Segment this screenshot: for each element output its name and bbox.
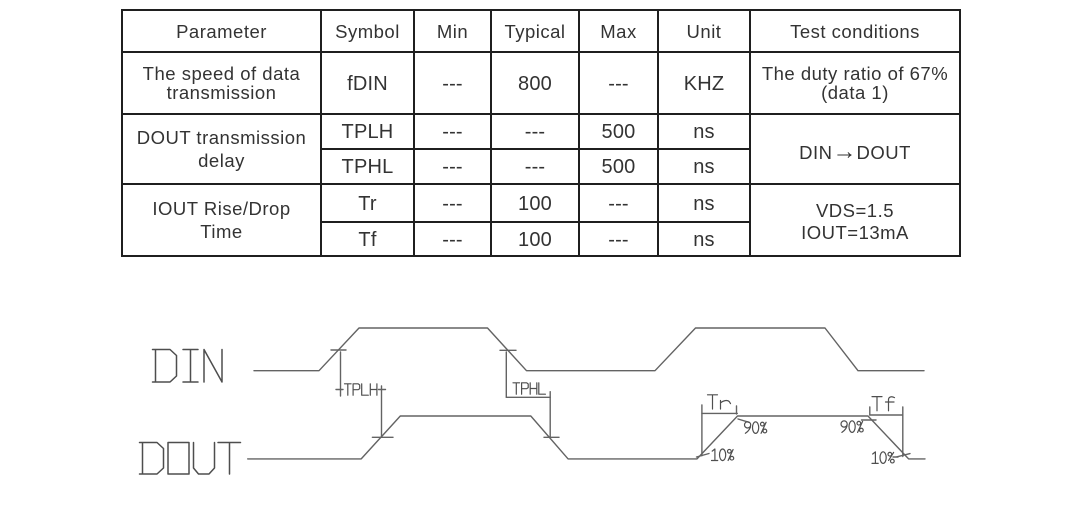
DIN waveform — [254, 328, 924, 371]
TPHL dimension line — [506, 396, 550, 398]
DOUT rising-edge 50% tick — [372, 436, 393, 438]
10% label (rise) — [712, 449, 734, 461]
DOUT letter O — [168, 443, 189, 475]
Tf left delimiter — [869, 407, 871, 415]
TPLH annotation — [336, 352, 393, 437]
TPHL left extension line — [505, 352, 507, 397]
DOUT letter T — [218, 443, 241, 475]
DOUT letter D — [140, 443, 164, 475]
10% leader dash (fall) — [893, 456, 898, 458]
DOUT waveform — [248, 416, 925, 459]
Tf annotation — [841, 397, 910, 464]
10% crossing tick (fall) — [897, 454, 910, 457]
DOUT falling-edge 50% tick — [544, 436, 559, 438]
TPLH right delimiter — [379, 389, 386, 391]
DIN falling-edge 50% tick — [500, 349, 516, 351]
TPLH left extension line — [340, 352, 342, 396]
DIN letter N — [204, 350, 222, 383]
TPLH right extension line — [381, 386, 383, 437]
TPHL text — [513, 383, 545, 394]
Tf right extension line — [902, 407, 904, 457]
Tr text — [708, 395, 731, 409]
spec table — [121, 9, 961, 257]
TPHL right extension line — [549, 392, 551, 438]
DIN label — [153, 350, 223, 383]
Tr left extension line — [701, 405, 703, 456]
DIN letter I — [183, 350, 198, 383]
Tf text — [872, 397, 895, 411]
TPHL annotation — [506, 352, 559, 437]
90% label (fall) — [841, 421, 863, 433]
Tr annotation — [697, 395, 767, 461]
Tr dimension line — [702, 412, 737, 414]
TPLH text — [345, 384, 377, 395]
TPLH left delimiter — [336, 389, 343, 391]
DIN letter D — [153, 350, 177, 383]
Tf dimension line — [870, 414, 903, 416]
DIN rising-edge 50% tick — [331, 349, 346, 351]
DOUT letter U — [194, 443, 215, 475]
90% leader line (rise) — [738, 419, 749, 422]
90% leader line (fall) — [862, 419, 877, 421]
DOUT label — [140, 443, 241, 475]
10% label (fall) — [872, 452, 894, 464]
Tr right delimiter — [736, 406, 738, 414]
90% label (rise) — [745, 422, 767, 434]
10% crossing tick (rise) — [697, 454, 710, 458]
